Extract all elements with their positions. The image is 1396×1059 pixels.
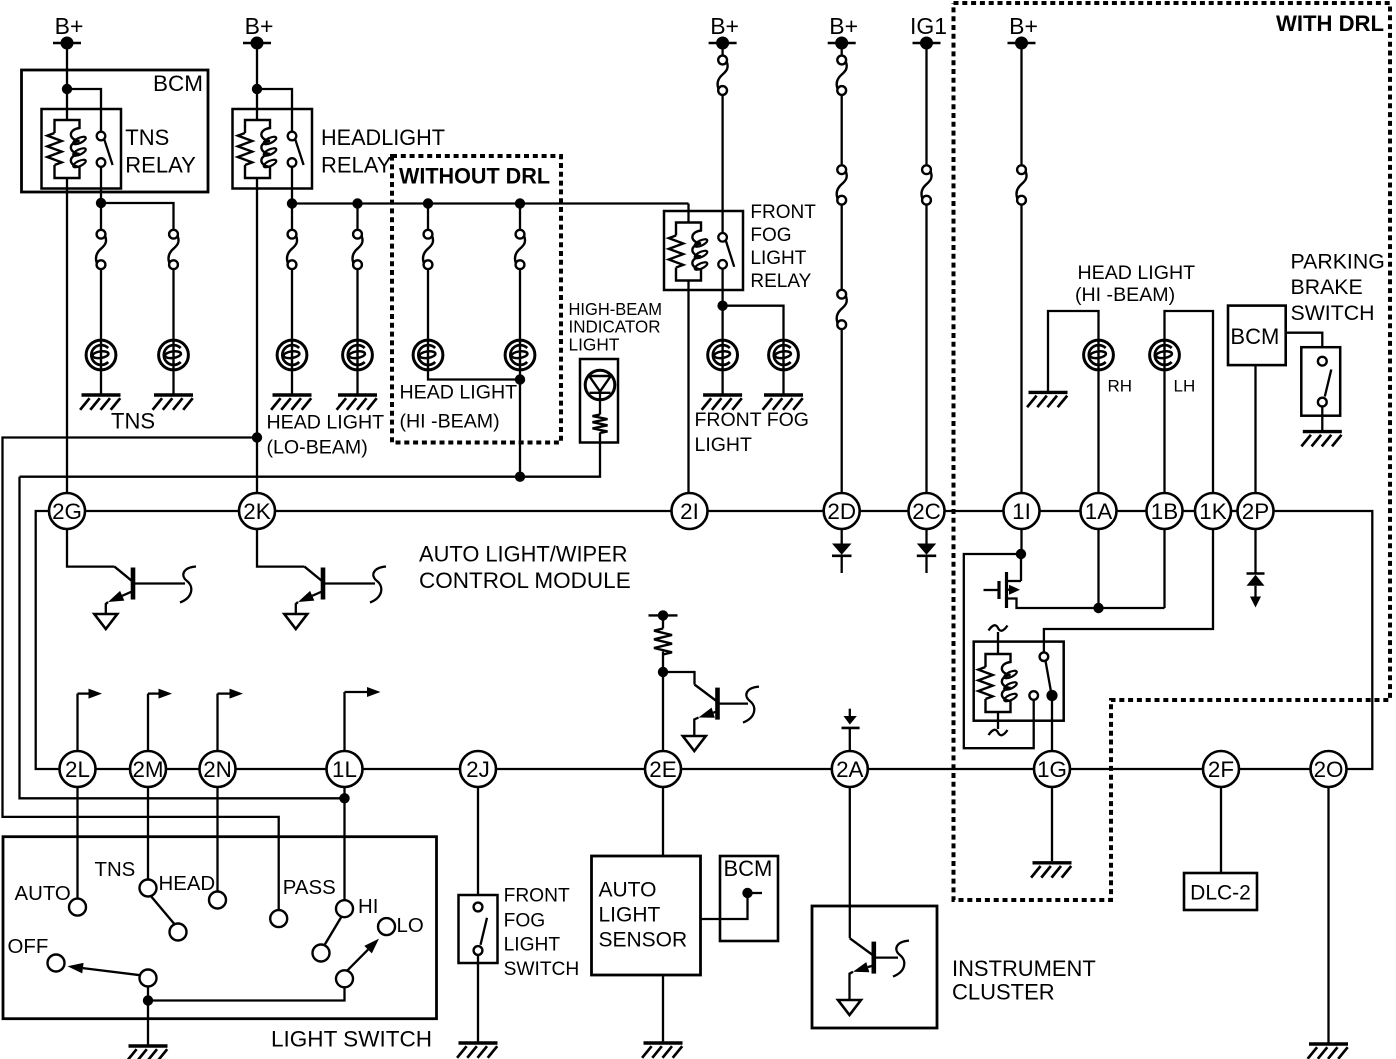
svg-text:2A: 2A bbox=[836, 757, 863, 782]
wire fuse to 1I bbox=[1020, 205, 1022, 494]
wire 2M to TNS contact bbox=[147, 787, 149, 880]
fuse TNS 1 bbox=[97, 230, 106, 239]
svg-text:INSTRUMENT: INSTRUMENT bbox=[952, 956, 1096, 981]
arrow output 2L bbox=[76, 694, 78, 752]
relay HEADLIGHT coil+resistor bbox=[245, 120, 270, 178]
relay FRONT FOG LIGHT RELAY box bbox=[664, 211, 743, 290]
wire fuse to 2D bbox=[841, 329, 843, 494]
relay front fog coil+resistor bbox=[676, 223, 701, 281]
wire module pin row 1 bbox=[85, 510, 240, 512]
fuse DRL B+ bbox=[1017, 165, 1026, 174]
node headlight bus 3 bbox=[423, 198, 433, 208]
svg-text:1K: 1K bbox=[1199, 499, 1226, 524]
svg-text:2C: 2C bbox=[912, 499, 941, 524]
squiggle DRL coil top bbox=[997, 632, 999, 654]
wire fog switch to ground bbox=[477, 955, 479, 1042]
diode instrument cluster feed bbox=[849, 709, 851, 716]
contact OFF bbox=[48, 955, 65, 972]
svg-text:HEADLIGHT: HEADLIGHT bbox=[321, 125, 445, 150]
svg-text:(HI -BEAM): (HI -BEAM) bbox=[1075, 284, 1175, 306]
wire to left fog lamp bbox=[721, 306, 723, 341]
wire 2F to DLC-2 bbox=[1220, 787, 1222, 874]
dashed box WITHOUT DRL bbox=[392, 156, 561, 443]
svg-text:RELAY: RELAY bbox=[321, 153, 392, 178]
ground parking brake bbox=[1303, 430, 1342, 433]
svg-text:B+: B+ bbox=[829, 13, 858, 39]
wire hi-beam lamps join bbox=[428, 370, 520, 380]
front fog switch contacts bbox=[474, 903, 483, 912]
wire lamp to ground bbox=[356, 370, 358, 394]
svg-text:PARKING: PARKING bbox=[1291, 250, 1385, 274]
contact LO bbox=[378, 918, 395, 935]
svg-text:DLC-2: DLC-2 bbox=[1190, 882, 1251, 905]
wire DRL relay to 1G bbox=[1051, 701, 1053, 752]
wire lamp to ground bbox=[291, 370, 293, 394]
lamp front fog left bbox=[708, 340, 738, 370]
ground TNS left bbox=[82, 393, 121, 396]
ground auto light sensor bbox=[644, 1041, 683, 1044]
light switch box bbox=[3, 837, 437, 1019]
lamp front fog right bbox=[769, 340, 799, 370]
wire B+ down bbox=[1020, 43, 1022, 165]
relay HEADLIGHT RELAY box bbox=[233, 109, 313, 189]
connector 2C bbox=[909, 493, 945, 529]
instrument cluster box bbox=[812, 906, 937, 1028]
connector 1G bbox=[1034, 751, 1070, 787]
wire IG1 fuse to 2C bbox=[925, 205, 927, 494]
fuse 2D column 2 bbox=[837, 165, 846, 174]
svg-text:SWITCH: SWITCH bbox=[504, 959, 580, 980]
wire lamp to ground bbox=[172, 370, 174, 394]
svg-text:LIGHT SWITCH: LIGHT SWITCH bbox=[271, 1027, 432, 1052]
wire fuse b to lamp bbox=[356, 269, 358, 341]
svg-text:2I: 2I bbox=[680, 499, 699, 524]
svg-text:IG1: IG1 bbox=[910, 13, 947, 39]
svg-text:RH: RH bbox=[1108, 377, 1133, 396]
wire bus into fuse a bbox=[291, 204, 293, 230]
svg-text:LIGHT: LIGHT bbox=[750, 248, 806, 269]
wire fuse a to lamp bbox=[291, 269, 293, 341]
BCM box (right) bbox=[1228, 306, 1286, 366]
contact common bbox=[140, 970, 157, 987]
mosfet DRL driver bbox=[1005, 572, 1008, 608]
lamp TNS right bbox=[159, 340, 189, 370]
svg-text:AUTO LIGHT/WIPER: AUTO LIGHT/WIPER bbox=[419, 542, 628, 567]
svg-text:HI: HI bbox=[358, 896, 378, 918]
connector 2A bbox=[832, 751, 868, 787]
svg-text:FRONT: FRONT bbox=[504, 886, 570, 907]
fuse 2D column 1 bbox=[837, 56, 846, 65]
wire hi-beam down to indicator line bbox=[519, 370, 521, 477]
node fog lamp split bbox=[717, 301, 727, 311]
ground light switch bbox=[129, 1044, 168, 1047]
front fog light switch box bbox=[459, 895, 498, 963]
node headlight bus 2 bbox=[352, 198, 362, 208]
wire headlight bus bbox=[292, 202, 689, 204]
wire TNS coil down to 2G bbox=[66, 178, 68, 494]
svg-text:2E: 2E bbox=[649, 757, 676, 782]
wire 2L to AUTO contact bbox=[76, 787, 78, 899]
parking brake contacts bbox=[1318, 357, 1327, 366]
relay TNS RELAY box bbox=[42, 109, 122, 189]
wire headlight switch output bbox=[291, 167, 293, 204]
connector 1K bbox=[1195, 493, 1231, 529]
wire fuse to fog relay switch bbox=[721, 95, 723, 233]
svg-text:2F: 2F bbox=[1208, 757, 1234, 782]
svg-text:WITHOUT DRL: WITHOUT DRL bbox=[399, 164, 550, 189]
wire BCM to 2P bbox=[1254, 365, 1256, 493]
svg-text:1I: 1I bbox=[1012, 499, 1031, 524]
svg-text:SENSOR: SENSOR bbox=[599, 929, 688, 952]
svg-text:BCM: BCM bbox=[1230, 324, 1279, 349]
wire ground net to LO blade bbox=[148, 987, 345, 1000]
BCM box (top left) bbox=[22, 70, 209, 192]
svg-text:BCM: BCM bbox=[153, 71, 203, 96]
svg-text:B+: B+ bbox=[1009, 13, 1038, 39]
wire LH bracket to 1K bbox=[1165, 311, 1214, 494]
indicator resistor bbox=[593, 415, 608, 434]
svg-text:PASS: PASS bbox=[283, 877, 336, 899]
svg-text:1L: 1L bbox=[332, 757, 357, 782]
node TNS coil/switch junction bbox=[62, 84, 72, 94]
svg-text:TNS: TNS bbox=[125, 125, 169, 150]
node mosfet source to 1A bbox=[1093, 603, 1103, 613]
diode 2C internal bbox=[925, 529, 927, 544]
blade pivot LO bbox=[336, 970, 353, 987]
ground TNS right bbox=[154, 393, 193, 396]
connector 2F bbox=[1203, 751, 1239, 787]
svg-text:2N: 2N bbox=[203, 757, 232, 782]
dashed box WITH DRL bbox=[954, 3, 1391, 900]
wire bus into fuse b bbox=[356, 204, 358, 230]
svg-text:2K: 2K bbox=[243, 499, 270, 524]
connector 1L bbox=[327, 751, 363, 787]
svg-text:2O: 2O bbox=[1314, 757, 1344, 782]
wire 1L to HI contact bbox=[343, 787, 345, 901]
connector 2D bbox=[824, 493, 860, 529]
wire 2J to fog switch bbox=[477, 787, 479, 896]
fuse 2D column 3 bbox=[837, 290, 846, 299]
lamp head light hi-beam LH bbox=[1150, 340, 1180, 370]
ground front fog left bbox=[703, 393, 742, 396]
svg-text:LIGHT: LIGHT bbox=[569, 334, 620, 354]
wire 1K down to DRL relay bbox=[1044, 529, 1213, 653]
wire TNS switch output bbox=[100, 167, 102, 203]
svg-text:SWITCH: SWITCH bbox=[1291, 301, 1375, 325]
wire B+ down bbox=[841, 43, 843, 56]
squiggle DRL coil bottom bbox=[997, 712, 999, 729]
wire fog lamp to ground bbox=[721, 370, 723, 394]
ground head light hi-beam bbox=[1029, 391, 1068, 394]
lamp headlight hi-beam left bbox=[413, 340, 443, 370]
wire sensor to BCM bbox=[701, 893, 748, 919]
wire B+ to headlight relay coil bbox=[256, 43, 258, 121]
ground lo-beam left bbox=[273, 393, 312, 396]
fuse TNS 2 bbox=[169, 230, 178, 239]
svg-text:1G: 1G bbox=[1037, 757, 1067, 782]
svg-text:HEAD LIGHT: HEAD LIGHT bbox=[267, 412, 385, 434]
svg-text:HEAD LIGHT: HEAD LIGHT bbox=[400, 382, 518, 404]
svg-text:BCM: BCM bbox=[724, 856, 773, 881]
transistor auto-light sensor driver bbox=[663, 672, 695, 685]
blade TNS bbox=[151, 896, 175, 925]
wire lamp to ground bbox=[100, 370, 102, 394]
svg-text:LH: LH bbox=[1174, 377, 1196, 396]
fuse headlight d bbox=[516, 230, 525, 239]
connector 2K bbox=[239, 493, 275, 529]
wire 2P to right edge bbox=[1273, 511, 1372, 769]
wire bus into fuse c bbox=[427, 204, 429, 230]
relay front fog switch contacts bbox=[718, 233, 727, 242]
connector 2I bbox=[672, 493, 708, 529]
relay DRL coil+resistor bbox=[986, 654, 1011, 712]
svg-text:CLUSTER: CLUSTER bbox=[952, 980, 1055, 1005]
node mosfet drain bbox=[1016, 549, 1026, 559]
wire B+ to TNS relay coil bbox=[66, 43, 68, 121]
node light switch ground bbox=[143, 995, 153, 1005]
relay DRL box bbox=[974, 642, 1064, 721]
wire PASS net bbox=[3, 438, 279, 911]
contact HEAD bbox=[209, 892, 226, 909]
connector 2E bbox=[645, 751, 681, 787]
svg-text:1A: 1A bbox=[1085, 499, 1112, 524]
wire sensor to ground bbox=[662, 975, 664, 1042]
node 2E resistor top bbox=[658, 610, 668, 620]
blade HI bbox=[324, 917, 341, 946]
lamp head light hi-beam RH bbox=[1084, 340, 1114, 370]
wire 2N to HEAD contact bbox=[216, 787, 218, 892]
svg-text:FOG: FOG bbox=[504, 911, 546, 932]
fuse headlight a bbox=[288, 230, 297, 239]
high-beam indicator box bbox=[580, 359, 618, 443]
node PASS wire tap bbox=[252, 432, 262, 442]
connector 2O bbox=[1311, 751, 1347, 787]
node headlight bus 1 bbox=[287, 198, 297, 208]
relay TNS coil+resistor bbox=[55, 120, 80, 178]
resistor 2E pull-up bbox=[662, 615, 664, 628]
relay TNS switch contacts bbox=[97, 132, 106, 141]
svg-text:2L: 2L bbox=[65, 757, 90, 782]
ground lo-beam right bbox=[338, 393, 377, 396]
wire resistor to node bbox=[662, 652, 664, 673]
relay HEADLIGHT switch contacts bbox=[288, 132, 297, 141]
transistor instrument cluster bbox=[849, 937, 851, 939]
svg-text:FOG: FOG bbox=[750, 225, 791, 246]
wire to right fog lamp bbox=[723, 306, 784, 341]
connector 1I bbox=[1004, 493, 1040, 529]
svg-text:(LO-BEAM): (LO-BEAM) bbox=[267, 437, 368, 459]
svg-text:2J: 2J bbox=[466, 757, 490, 782]
parking brake switch box bbox=[1301, 347, 1340, 416]
wire bus to fog coil bbox=[687, 204, 689, 223]
contact PASS bbox=[270, 910, 287, 927]
wire module pin row 2 bbox=[95, 768, 131, 770]
connector 1A bbox=[1081, 493, 1117, 529]
auto light sensor box bbox=[592, 856, 701, 975]
DLC-2 box bbox=[1184, 873, 1257, 910]
wire switch to ground bbox=[1321, 407, 1323, 431]
wire indicator to line bbox=[20, 433, 601, 477]
wire fuse c to lamp bbox=[427, 269, 429, 341]
svg-text:HEAD: HEAD bbox=[159, 873, 216, 895]
svg-text:B+: B+ bbox=[55, 13, 84, 39]
wire 1G to ground bbox=[1051, 787, 1053, 862]
wire fog switch out bbox=[721, 269, 723, 306]
wire into fuse 1 bbox=[100, 203, 102, 230]
svg-text:LIGHT: LIGHT bbox=[695, 434, 753, 456]
wire fog coil down to 2I bbox=[687, 281, 689, 494]
wire drain node to relay contact bbox=[964, 554, 1034, 748]
connector 2J bbox=[460, 751, 496, 787]
arrow output 2M bbox=[147, 694, 149, 752]
wire bus into fuse d bbox=[519, 204, 521, 230]
svg-text:HEAD LIGHT: HEAD LIGHT bbox=[1078, 262, 1196, 284]
svg-text:LIGHT: LIGHT bbox=[504, 935, 561, 956]
svg-text:OFF: OFF bbox=[8, 936, 49, 958]
wire fuse d to lamp bbox=[519, 269, 521, 341]
wire ground bracket RH bbox=[1048, 311, 1099, 392]
svg-text:B+: B+ bbox=[710, 13, 739, 39]
wire LH lamp to 1B bbox=[1163, 370, 1165, 494]
svg-text:CONTROL MODULE: CONTROL MODULE bbox=[419, 568, 631, 593]
svg-text:FRONT FOG: FRONT FOG bbox=[695, 409, 809, 431]
wire to light switch ground bbox=[147, 1001, 149, 1045]
ground 2O bbox=[1309, 1042, 1348, 1045]
diode 2D internal bbox=[841, 529, 843, 544]
contact AUTO bbox=[69, 899, 86, 916]
wire 2E to sensor bbox=[662, 787, 664, 857]
connector 2N bbox=[200, 751, 236, 787]
svg-text:RELAY: RELAY bbox=[125, 153, 196, 178]
fuse IG1 bbox=[922, 165, 931, 174]
svg-text:B+: B+ bbox=[245, 13, 274, 39]
svg-text:AUTO: AUTO bbox=[15, 883, 71, 905]
node BCM stub bbox=[742, 888, 752, 898]
contact TNS bbox=[140, 880, 157, 897]
wire to second TNS fuse bbox=[101, 203, 174, 230]
wire RH lamp to 1A bbox=[1097, 370, 1099, 494]
wire fuse2 to TNS lamp bbox=[172, 269, 174, 341]
wire between fuses bbox=[841, 205, 843, 290]
svg-text:BRAKE: BRAKE bbox=[1291, 275, 1363, 299]
ground 1G bbox=[1033, 861, 1072, 864]
lamp headlight hi-beam right bbox=[505, 340, 535, 370]
wire fuse1 to TNS lamp bbox=[100, 269, 102, 341]
wire common to ground net bbox=[147, 987, 149, 1001]
connector 2L bbox=[60, 751, 96, 787]
svg-text:2D: 2D bbox=[827, 499, 856, 524]
wire BCM to parking brake switch bbox=[1286, 333, 1323, 348]
svg-text:2M: 2M bbox=[132, 757, 163, 782]
svg-text:(HI -BEAM): (HI -BEAM) bbox=[400, 411, 500, 433]
wire 2G stub to 2L bbox=[36, 511, 60, 769]
node headlight coil/switch junction bbox=[252, 84, 262, 94]
node hi-beam join bbox=[515, 374, 525, 384]
svg-text:2P: 2P bbox=[1242, 499, 1269, 524]
diode 2P internal bbox=[1254, 529, 1256, 574]
wire 1I to mosfet drain node bbox=[1020, 529, 1022, 555]
arrow common to OFF bbox=[83, 968, 140, 975]
wire headlight coil down to 2K bbox=[256, 178, 258, 494]
node TNS fuse split bbox=[96, 198, 106, 208]
wire between fuses bbox=[841, 95, 843, 166]
wire node to 2E bbox=[662, 672, 664, 752]
transistor 2G driver bbox=[67, 529, 114, 567]
lamp headlight lo-beam right bbox=[343, 340, 373, 370]
wire IG1 down bbox=[925, 43, 927, 165]
wire HI net bbox=[20, 477, 345, 799]
ground front fog switch bbox=[459, 1041, 498, 1044]
svg-text:LO: LO bbox=[397, 915, 424, 937]
svg-text:TNS: TNS bbox=[111, 409, 155, 434]
svg-text:LIGHT: LIGHT bbox=[599, 904, 661, 927]
wire B+ to fog fuse bbox=[721, 43, 723, 56]
wire 2O to ground bbox=[1327, 787, 1329, 1043]
indicator light symbol bbox=[585, 370, 615, 400]
fuse headlight b bbox=[353, 230, 362, 239]
wire fog lamp to ground bbox=[782, 370, 784, 394]
svg-text:WITH DRL: WITH DRL bbox=[1276, 11, 1384, 36]
transistor 2K driver bbox=[257, 529, 304, 567]
fuse headlight c bbox=[424, 230, 433, 239]
wire 1A down bbox=[1097, 529, 1099, 609]
ground front fog right bbox=[764, 393, 803, 396]
arrow pivot to LO bbox=[348, 950, 369, 971]
connector 2M bbox=[130, 751, 166, 787]
node headlight bus 4 bbox=[515, 198, 525, 208]
svg-text:1B: 1B bbox=[1151, 499, 1178, 524]
contact HI bbox=[336, 900, 353, 917]
svg-text:2G: 2G bbox=[52, 499, 82, 524]
wire junction to relay switch bbox=[257, 89, 292, 132]
svg-text:AUTO: AUTO bbox=[599, 879, 657, 902]
lamp headlight lo-beam left bbox=[277, 340, 307, 370]
BCM box (center) bbox=[720, 856, 778, 941]
arrow output 2N bbox=[216, 694, 218, 752]
connector 2G bbox=[49, 493, 85, 529]
wire 2A to cluster bbox=[849, 787, 851, 939]
node HI net to 1L bbox=[339, 793, 349, 803]
relay DRL switch bbox=[1040, 652, 1049, 661]
lamp TNS left bbox=[86, 340, 116, 370]
arrow output 1L bbox=[343, 692, 345, 752]
fuse front fog bbox=[718, 56, 727, 65]
wire 1B down bbox=[1163, 529, 1165, 609]
svg-text:FRONT: FRONT bbox=[750, 202, 816, 223]
svg-text:RELAY: RELAY bbox=[750, 271, 811, 292]
connector 1B bbox=[1147, 493, 1183, 529]
node 2E transistor collector bbox=[658, 667, 668, 677]
svg-text:TNS: TNS bbox=[95, 859, 136, 881]
connector 2P bbox=[1238, 493, 1274, 529]
node hi-beam to line bbox=[515, 472, 525, 482]
wire junction to relay switch bbox=[67, 89, 101, 132]
